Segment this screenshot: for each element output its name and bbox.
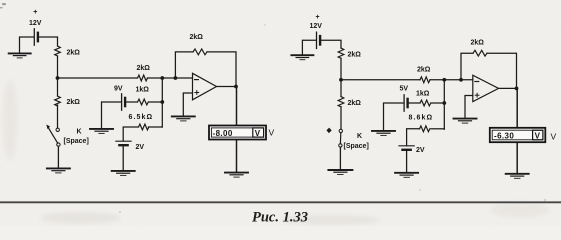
svg-text:5V: 5V	[400, 86, 409, 93]
svg-text:2kΩ: 2kΩ	[67, 50, 81, 57]
wire	[122, 145, 124, 171]
wire	[57, 105, 59, 128]
svg-text:[Space]: [Space]	[344, 143, 369, 150]
svg-text:2kΩ: 2kΩ	[471, 40, 485, 47]
ground (2V battery right)	[395, 173, 418, 178]
svg-text:V: V	[535, 131, 541, 140]
wire	[321, 40, 341, 48]
resistor R1 2k (top of divider)	[55, 46, 61, 56]
svg-text:12V: 12V	[310, 23, 323, 30]
svg-text:+: +	[33, 9, 37, 16]
ground (5V battery)	[372, 131, 395, 136]
ground (op-amp + input)	[172, 116, 195, 121]
resistor R4 1k	[138, 99, 149, 105]
svg-text:[Space]: [Space]	[64, 138, 89, 145]
switch K2 (closed)	[327, 128, 343, 147]
wire	[409, 102, 420, 104]
ground (12V battery)	[9, 53, 31, 58]
svg-text:1kΩ: 1kΩ	[136, 86, 150, 93]
resistor R11 8.6k	[420, 126, 430, 132]
ground (below switch right)	[328, 170, 352, 175]
wire: 8.6k branch left corner to 2V battery	[407, 129, 420, 146]
svg-text:-6.30: -6.30	[494, 131, 514, 140]
ground (12V battery right)	[291, 55, 313, 60]
svg-text:2kΩ: 2kΩ	[417, 67, 431, 74]
svg-text:V: V	[269, 128, 275, 138]
svg-text:8.6kΩ: 8.6kΩ	[409, 115, 434, 122]
wire	[149, 101, 163, 103]
ground (2V battery)	[112, 171, 135, 176]
resistor R5 6.5k	[139, 124, 149, 130]
wire: node A to input resistor	[58, 77, 138, 79]
wire: 9V branch left	[102, 102, 122, 129]
svg-text:2kΩ: 2kΩ	[348, 52, 362, 59]
ground (below switch)	[47, 168, 70, 173]
wire	[487, 53, 517, 88]
wire	[57, 146, 59, 168]
battery V3 2V plates (vertical)	[116, 141, 131, 145]
battery V1 12V plates	[34, 29, 38, 45]
wire: 5V branch left	[384, 103, 404, 131]
wire: 12V battery top horizontal (right)	[302, 40, 315, 55]
svg-text:2kΩ: 2kΩ	[348, 100, 362, 107]
svg-text:9V: 9V	[114, 86, 123, 93]
wire: 12V battery top horizontal	[20, 37, 34, 53]
op-amp U2 minus input mark	[475, 81, 479, 83]
ground (op-amp + input right)	[454, 119, 477, 124]
node D junction dot	[339, 78, 343, 82]
wire	[57, 56, 59, 96]
wire	[340, 107, 342, 129]
resistor R9 2k (input right)	[420, 77, 430, 83]
svg-text:2kΩ: 2kΩ	[137, 65, 151, 72]
op-amp U2 plus input mark	[475, 93, 479, 97]
svg-text:K: K	[77, 129, 82, 136]
op-amp U1 plus input mark	[195, 91, 199, 95]
node F junction dot (feedback tap right)	[459, 78, 463, 82]
battery V2 9V plates	[122, 94, 126, 110]
wire	[126, 101, 137, 103]
svg-text:K: K	[357, 133, 362, 140]
wire: feedback loop	[175, 52, 193, 78]
wire: 6.5k branch left corner to 2V battery	[123, 127, 138, 141]
resistor R10 1k	[420, 100, 431, 106]
node A junction dot	[56, 76, 60, 80]
svg-text:1kΩ: 1kΩ	[416, 91, 430, 98]
output node junction dot right	[515, 87, 519, 91]
svg-text:6.5kΩ: 6.5kΩ	[129, 114, 154, 121]
wire	[340, 58, 342, 96]
wire	[339, 147, 341, 170]
wire	[148, 77, 193, 79]
op-amp U1 minus input mark	[195, 79, 199, 81]
svg-text:2V: 2V	[416, 147, 425, 154]
op-amp U2 triangle	[473, 75, 499, 102]
wire	[39, 37, 58, 46]
wire: output down to voltmeter and ground	[236, 87, 238, 173]
svg-text:+: +	[316, 14, 320, 21]
battery V6 2V plates (vertical right)	[399, 146, 414, 150]
wire: summing rail	[161, 78, 163, 127]
svg-text:V: V	[551, 132, 557, 142]
resistor R8 2k (bottom of divider right)	[338, 97, 344, 107]
junction dot on rail at 1k branch	[160, 100, 164, 104]
resistor R12 2k (feedback right)	[473, 50, 487, 56]
node C junction dot (feedback tap)	[174, 76, 178, 80]
resistor R3 2k (input, horizontal)	[138, 75, 148, 81]
svg-text:2kΩ: 2kΩ	[190, 34, 204, 41]
svg-text:Рис. 1.33: Рис. 1.33	[252, 210, 308, 226]
bottom rule	[0, 201, 561, 203]
svg-text:2kΩ: 2kΩ	[67, 99, 81, 106]
wire: output down to voltmeter and ground right	[516, 88, 518, 173]
voltmeter M1 body	[209, 126, 266, 140]
wire: non-inverting input to ground	[183, 93, 192, 116]
resistor R7 2k (top of divider right)	[338, 48, 344, 58]
wire: node D to input resistor	[341, 79, 420, 81]
resistor R2 2k (bottom of divider)	[55, 96, 61, 106]
ground (9V battery)	[90, 129, 113, 134]
node B junction dot (rail top)	[160, 76, 164, 80]
resistor R6 2k (feedback)	[193, 49, 207, 55]
voltmeter M2 body	[490, 128, 546, 142]
wire: op-amp output	[217, 86, 237, 88]
wire: op-amp output right	[499, 87, 517, 89]
ground (voltmeter right)	[506, 174, 529, 179]
wire	[207, 52, 236, 87]
op-amp U1 triangle	[193, 73, 217, 100]
battery V4 12V plates (right)	[317, 32, 321, 48]
switch K (open)	[46, 125, 60, 147]
wire	[431, 102, 444, 104]
wire	[149, 126, 163, 128]
svg-text:2V: 2V	[136, 144, 145, 151]
wire: summing rail right	[443, 80, 445, 130]
svg-text:V: V	[255, 129, 261, 138]
wire	[431, 128, 444, 130]
wire	[406, 150, 408, 173]
wire	[430, 79, 473, 81]
node E junction dot (rail top right)	[442, 78, 446, 82]
wire: feedback loop right	[461, 53, 473, 80]
svg-text:-8.00: -8.00	[213, 129, 233, 138]
svg-text:12V: 12V	[29, 20, 42, 27]
junction dot on rail at 1k branch right	[442, 101, 446, 105]
output node junction dot	[234, 85, 238, 89]
battery V5 5V plates	[404, 95, 408, 111]
ground (voltmeter)	[225, 173, 248, 178]
wire: non-inverting input to ground (right)	[465, 96, 473, 119]
